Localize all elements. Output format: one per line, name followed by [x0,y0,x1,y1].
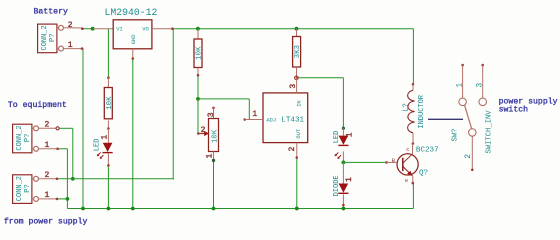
svg-text:To equipment: To equipment [8,100,67,110]
svg-text:GND: GND [131,34,137,44]
svg-text:CONN_2: CONN_2 [16,125,24,150]
pin 2 wiper of potentiometer [197,126,209,136]
svg-text:1: 1 [45,141,50,150]
svg-text:3: 3 [476,83,485,88]
wire base net to transistor [343,161,386,163]
junction ground rail at LED1 [107,207,111,211]
svg-text:VO: VO [142,27,148,33]
svg-text:1: 1 [205,154,214,159]
svg-text:DIODE: DIODE [333,175,341,196]
diode D3 DIODE [333,162,354,206]
pin 1 of to-equipment connector [38,141,59,150]
svg-text:LM2940-12: LM2940-12 [105,7,158,18]
svg-text:switch: switch [499,105,529,115]
connector P? CONN_2 (from power supply) [13,175,39,204]
pin GND lead of LM2940 [132,49,135,60]
svg-text:LED: LED [94,139,102,152]
junction ground rail at battery return [81,207,85,211]
svg-text:1: 1 [345,177,354,182]
junction on battery positive net [91,27,95,31]
LED D1 (battery indicator) [94,127,113,167]
junction on ground distribution net [66,197,70,201]
wire rail down to inductor [412,29,414,85]
wire VO branch down at x=174 [172,29,174,179]
svg-text:2: 2 [45,171,50,180]
svg-text:3: 3 [289,84,298,89]
wire battery pin1 down [82,49,84,209]
resistor R3 3K3 [293,29,303,78]
pin VO lead of LM2940 [152,27,174,30]
pin 1 ADJ of LT431 [243,110,263,121]
svg-text:1: 1 [456,83,465,88]
svg-text:from power supply: from power supply [4,216,88,226]
junction ground rail at LM2940 GND [131,207,135,211]
svg-text:VI: VI [116,27,122,33]
pin 3 of SW1 [476,64,485,98]
svg-text:CONN_2: CONN_2 [16,176,24,201]
svg-text:2: 2 [201,126,206,135]
svg-text:3: 3 [207,112,216,117]
wire R1 bottom to LED1 [107,120,109,128]
svg-text:10K: 10K [106,96,114,110]
wire VO output rail [173,28,414,30]
svg-text:LT431: LT431 [281,116,304,124]
pin 2 of to-equipment connector [38,120,59,130]
svg-text:L?: L? [403,103,411,112]
junction base node [342,161,346,165]
svg-text:P?: P? [49,34,57,42]
wire branch down to R 10K top [107,29,109,78]
wire battery pin2 to VI junction [82,28,92,30]
wire LM2940 GND down to ground rail [132,59,134,209]
junction ground rail at D1 [342,207,346,211]
switch SW1 SWITCH_INV [451,98,493,153]
junction at R3 3K3 top [295,27,299,31]
wire pot bottom to ground rail [213,160,215,208]
svg-text:Battery: Battery [34,7,68,16]
svg-text:Q?: Q? [419,169,428,177]
svg-text:ADJ: ADJ [266,117,276,123]
wire 3K3 bottom / LT431 IN to LED2 [296,77,343,79]
LED D2 [333,127,355,159]
junction ground rail at pot [212,207,216,211]
pin 2 of P7 [63,21,83,30]
wire from-power-supply pin1 segment [57,198,67,200]
shunt regulator U1 LT431 [263,93,308,143]
wire junction down to pot wiper [197,99,199,134]
junction at R2/pot/ADJ node [196,97,200,101]
pin 2 OUT of LT431 [288,143,298,159]
svg-text:BC237: BC237 [416,146,439,154]
resistor R2 10K [194,29,204,77]
potentiometer R4 10K (trimmer) [205,107,219,162]
junction ground rail at LT431 OUT [295,207,299,211]
wire across to ADJ pin [198,98,249,100]
wire R2 bottom down [197,75,199,99]
svg-text:2: 2 [45,120,50,129]
svg-text:CONN_2: CONN_2 [41,25,49,50]
svg-text:IN: IN [297,100,303,106]
svg-text:SW?: SW? [451,129,459,142]
connector P7 CONN_2 (battery) [38,24,64,53]
svg-text:2: 2 [68,21,73,30]
pin 1 of SW1 [456,64,465,98]
connector P? CONN_2 (to equipment) [13,124,39,153]
svg-text:1: 1 [252,110,257,119]
svg-text:e: e [405,178,408,184]
wire ground rail [67,208,413,210]
svg-text:SWITCH_INV: SWITCH_INV [485,110,493,154]
svg-text:1: 1 [45,191,50,200]
pin C collector of Q1 [406,144,412,155]
svg-text:10K: 10K [212,129,220,143]
regulator IC1 LM2940-12 [105,7,158,49]
wire to-equipment pin2 net [59,127,73,129]
svg-text:c: c [406,147,409,153]
wire LED2 cathode to base node [342,151,344,162]
wire VI pin lead from junction [93,28,114,30]
junction on positive distribution net [71,177,75,181]
svg-text:1: 1 [101,135,110,140]
bus stub near switch [428,118,463,120]
wire LED1 cathode down to ground rail [107,165,109,208]
wire diode D1 to ground rail [342,205,344,209]
pin 1 of from-power-supply connector [38,191,58,200]
svg-text:3K3: 3K3 [294,45,302,58]
svg-text:P?: P? [24,184,32,192]
svg-text:P?: P? [24,134,32,142]
wire ground rail left drop [66,199,68,209]
junction at R2 10K top [196,27,200,31]
junction ring at 3K3 / LT431 IN node [295,76,299,80]
pin 3 IN of LT431 [289,78,298,93]
svg-text:10K: 10K [196,46,204,60]
svg-text:2: 2 [288,147,297,152]
svg-text:INDUCTOR: INDUCTOR [418,94,426,128]
pin 2 of from-power-supply connector [38,171,58,180]
wire ground rail up to emitter [412,183,414,208]
svg-text:B: B [392,158,396,164]
resistor R1 10K [104,76,114,118]
svg-text:LED: LED [333,131,341,144]
pin E emitter of Q1 [405,176,414,185]
svg-text:2: 2 [464,154,473,159]
inductor L1 INDUCTOR [403,83,426,145]
pin 2 of SW1 [464,136,474,171]
transistor Q1 BC237 [397,146,439,177]
svg-text:OUT: OUT [296,128,302,138]
wire LT431 OUT down to ground rail [296,158,298,209]
svg-text:1: 1 [68,41,73,50]
wire positive distribution horizontal [57,178,174,180]
wire to-equipment pin1 net [58,148,68,150]
pin 1 of P7 [63,41,83,50]
pin B base of Q1 [385,158,397,164]
